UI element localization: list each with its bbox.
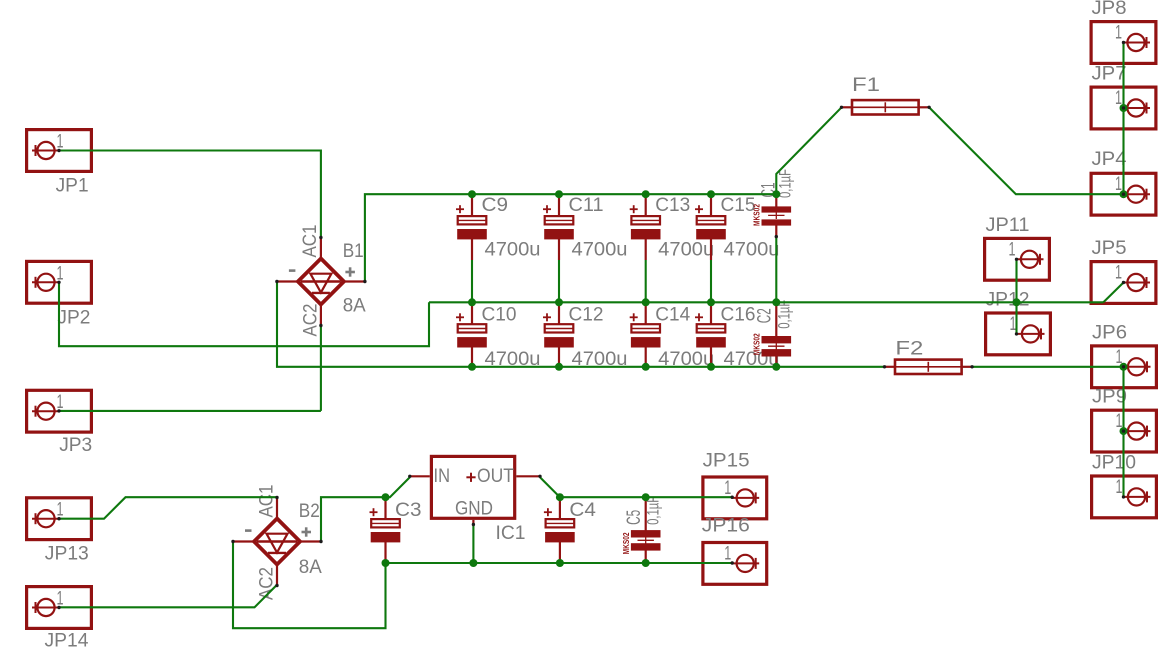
svg-text:IN: IN	[434, 465, 451, 487]
pin end dots bridges	[319, 236, 322, 239]
wire IC1 OUT to C4 top and JP15	[540, 477, 732, 497]
fuse F1	[842, 106, 853, 108]
junction dot JP4	[1120, 190, 1128, 198]
junction dots GND bus	[382, 559, 390, 567]
junction dot JP6	[1120, 363, 1128, 371]
wire JP3 to B1 AC2	[59, 410, 321, 412]
svg-text:C14: C14	[655, 303, 690, 325]
svg-text:JP10: JP10	[1092, 451, 1136, 473]
svg-text:JP16: JP16	[702, 515, 750, 537]
connector JP1	[27, 130, 92, 172]
B1 minus sign	[289, 269, 296, 272]
pin end dot C1	[775, 235, 778, 238]
svg-text:JP15: JP15	[703, 450, 750, 472]
capacitor C10 (polarized electrolytic)	[471, 302, 473, 324]
junction dots mid bus	[468, 298, 476, 306]
svg-text:F2: F2	[895, 337, 923, 359]
junction dots top bus	[468, 190, 476, 198]
wire C11 lower lead to mid bus	[558, 260, 560, 302]
capacitor C12 (polarized electrolytic)	[558, 302, 560, 324]
capacitor C5 (film 0,1uF)	[645, 497, 647, 530]
wire C1 lower lead to mid bus	[775, 237, 777, 303]
B2 plus sign	[302, 531, 312, 534]
svg-text:4700u: 4700u	[724, 239, 780, 261]
wire JP14 to B2 AC2	[59, 585, 277, 608]
svg-text:JP1: JP1	[56, 174, 89, 196]
wire C13 lower lead to mid bus	[645, 260, 647, 302]
svg-text:C3: C3	[395, 499, 422, 521]
svg-text:C11: C11	[569, 194, 604, 216]
svg-text:C16: C16	[721, 303, 756, 325]
wire JP4 to JP7 to JP8 vertical	[1122, 43, 1124, 195]
bridge rectifier B1	[298, 259, 344, 305]
connector JP8	[1091, 22, 1156, 64]
connector JP7	[1091, 87, 1156, 129]
capacitor C9 (polarized electrolytic)	[471, 194, 473, 216]
F2 pin end dots	[883, 365, 886, 368]
wire B2 minus to GND bus	[233, 542, 386, 629]
wire JP6 to JP9 to JP10 vertical	[1122, 367, 1124, 497]
junction dots lower rail	[382, 493, 390, 501]
svg-text:JP7: JP7	[1092, 63, 1127, 85]
svg-text:B2: B2	[299, 500, 320, 522]
B1 pin plus (right)	[342, 280, 365, 282]
wire JP1 to B1 AC1	[59, 151, 321, 237]
wire mid bus 0V rail	[429, 301, 1103, 303]
svg-text:1: 1	[1009, 238, 1016, 260]
svg-text:MKS02: MKS02	[752, 333, 762, 355]
bridge rectifier B2	[254, 519, 300, 565]
svg-text:MKS02: MKS02	[752, 204, 762, 226]
connector JP5	[1091, 262, 1156, 304]
connector JP12	[986, 313, 1051, 355]
IC1 OUT pin plus mark	[466, 476, 475, 478]
IC1 pin OUT (right)	[516, 475, 540, 477]
capacitor C14 (polarized electrolytic)	[645, 302, 647, 324]
svg-text:8A: 8A	[299, 556, 322, 578]
wire C9 lower lead to mid bus	[471, 260, 473, 302]
svg-text:C15: C15	[721, 194, 756, 216]
svg-text:C5: C5	[623, 510, 645, 525]
svg-text:C4: C4	[569, 499, 596, 521]
svg-text:C13: C13	[655, 194, 690, 216]
wire JP13 to B2 AC1	[59, 497, 277, 519]
fuse F2	[885, 366, 896, 368]
svg-text:JP6: JP6	[1092, 321, 1127, 343]
B1 pin AC2 (bottom)	[320, 303, 322, 326]
connector JP9	[1092, 410, 1157, 452]
svg-text:C10: C10	[482, 303, 517, 325]
svg-text:AC1: AC1	[255, 485, 277, 518]
wire B1 AC2 down	[320, 326, 322, 411]
svg-text:JP8: JP8	[1092, 0, 1127, 19]
svg-text:4700u: 4700u	[572, 239, 628, 261]
voltage regulator IC1	[431, 456, 514, 518]
svg-text:1: 1	[724, 542, 731, 564]
capacitor C15 (polarized electrolytic)	[710, 194, 712, 216]
B2 pin minus (left)	[233, 540, 256, 542]
svg-text:MKS02: MKS02	[621, 532, 631, 554]
wire mid bus to JP5 diagonal	[1103, 283, 1123, 303]
wire B2 plus to C3 top	[321, 497, 386, 541]
svg-text:C2: C2	[754, 308, 776, 323]
IC1 pin IN (left)	[410, 475, 430, 477]
svg-text:1: 1	[724, 477, 731, 499]
capacitor C1 (film 0,1uF)	[775, 194, 777, 207]
capacitor C3 (polarized electrolytic)	[384, 497, 386, 519]
wire lower GND bus to JP16	[386, 562, 733, 564]
B1 internal diode	[301, 280, 341, 282]
svg-text:JP12: JP12	[986, 288, 1030, 310]
wire F1 to JP4 bus	[929, 107, 1124, 194]
B1 plus sign	[345, 271, 355, 274]
svg-text:4700u: 4700u	[485, 239, 541, 261]
svg-text:1: 1	[1115, 22, 1122, 44]
B2 pin AC1 (top)	[276, 498, 278, 521]
junction dot JP9	[1120, 427, 1128, 435]
svg-text:JP2: JP2	[57, 307, 90, 329]
wire IC1 GND down	[472, 525, 474, 564]
svg-text:GND: GND	[455, 498, 493, 520]
wire B1 minus to bottom bus	[277, 282, 884, 367]
svg-text:IC1: IC1	[496, 522, 526, 544]
capacitor C13 (polarized electrolytic)	[645, 194, 647, 216]
svg-text:C12: C12	[569, 303, 604, 325]
wire F2 to JP6	[973, 366, 1124, 368]
svg-text:JP14: JP14	[45, 630, 89, 652]
B2 minus sign	[245, 529, 252, 532]
wire B1 plus up to top bus	[365, 194, 776, 281]
IC1 pin GND (bottom)	[472, 520, 474, 525]
svg-text:C9: C9	[482, 194, 509, 216]
pin end dots IC1	[408, 475, 411, 478]
svg-text:AC1: AC1	[299, 225, 321, 258]
wire JP2 to mid bus	[59, 282, 429, 346]
connector JP3	[27, 390, 92, 432]
pin end dots connectors	[57, 149, 60, 152]
svg-text:JP3: JP3	[59, 434, 92, 456]
B1 pin minus (left)	[277, 280, 300, 282]
B1 pin AC1 (top)	[320, 238, 322, 261]
connector JP13	[27, 498, 92, 540]
capacitor C4 (polarized electrolytic)	[559, 497, 561, 519]
wire C15 lower lead to mid bus	[710, 260, 712, 302]
svg-text:OUT: OUT	[477, 465, 514, 487]
connector JP4	[1091, 173, 1156, 215]
svg-text:JP11: JP11	[986, 214, 1030, 236]
connector JP2	[27, 261, 92, 303]
connector JP14	[27, 587, 92, 629]
svg-text:1: 1	[1116, 476, 1123, 498]
wire C3 top to IC1 IN diagonal	[386, 477, 410, 497]
svg-text:1: 1	[1115, 262, 1122, 284]
junction dots bottom bus	[468, 363, 476, 371]
capacitor C11 (polarized electrolytic)	[558, 194, 560, 216]
svg-text:JP9: JP9	[1092, 386, 1127, 408]
capacitor C2 (film 0,1uF)	[775, 302, 777, 336]
connector JP16	[703, 543, 767, 585]
connector JP15	[703, 477, 767, 519]
svg-text:AC2: AC2	[300, 304, 322, 337]
svg-text:JP4: JP4	[1092, 148, 1127, 170]
svg-text:JP13: JP13	[45, 543, 89, 565]
junction dot JP7	[1120, 104, 1128, 112]
svg-text:JP5: JP5	[1092, 237, 1127, 259]
F1 pin end dots	[840, 106, 843, 109]
B2 pin AC2 (bottom)	[276, 563, 278, 586]
svg-text:8A: 8A	[343, 295, 366, 317]
B2 internal diode	[257, 540, 297, 542]
svg-text:F1: F1	[852, 74, 880, 96]
svg-text:B1: B1	[343, 240, 364, 262]
capacitor C16 (polarized electrolytic)	[710, 302, 712, 324]
connector JP6	[1092, 346, 1157, 388]
connector JP10	[1092, 476, 1157, 518]
wire JP11 to JP12 vertical	[1015, 259, 1017, 334]
svg-text:4700u: 4700u	[658, 239, 714, 261]
wire C1 top to fuse F1	[776, 107, 841, 194]
connector JP11	[985, 238, 1050, 280]
B2 pin plus (right)	[298, 540, 321, 542]
